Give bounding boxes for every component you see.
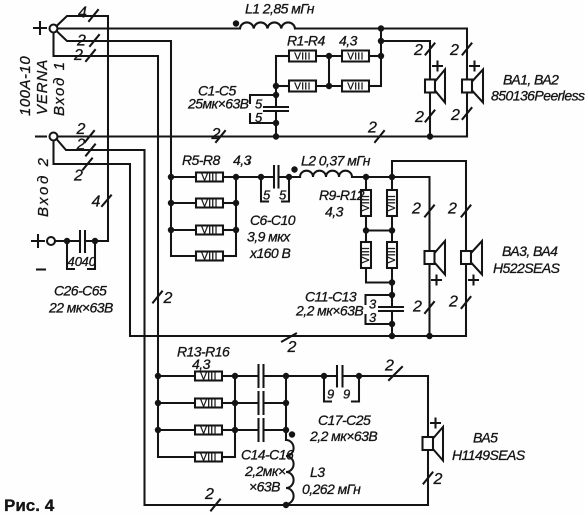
svg-text:100А-10: 100А-10 — [17, 56, 34, 116]
gauge 2 — [86, 145, 95, 156]
inductor L3 winding-start dot — [289, 431, 295, 437]
svg-text:×63В: ×63В — [249, 479, 280, 495]
resistor R1 — [276, 51, 316, 63]
svg-text:VIII: VIII — [200, 399, 217, 410]
svg-text:2,2 мк×63В: 2,2 мк×63В — [309, 428, 377, 444]
svg-text:2,2 мк×63В: 2,2 мк×63В — [295, 303, 363, 319]
gauge 2 mid return bus — [282, 334, 296, 342]
svg-text:4,3: 4,3 — [192, 356, 211, 372]
wire: input1+ branch to woofer R13-R16 left bus — [54, 33, 159, 458]
resistor R10 — [387, 177, 398, 216]
gauge 4 vertical — [102, 196, 111, 207]
svg-text:40: 40 — [68, 254, 83, 269]
svg-text:ВА5: ВА5 — [473, 430, 498, 446]
svg-text:2: 2 — [412, 299, 422, 316]
resistor R6 — [171, 199, 236, 210]
svg-text:2: 2 — [448, 294, 458, 311]
svg-text:VIII: VIII — [387, 247, 398, 264]
wire: input1+ main top feed to L1 — [58, 27, 241, 29]
inductor L2 winding-start dot — [291, 166, 297, 172]
svg-text:5: 5 — [263, 188, 271, 203]
capacitor C6-C10 — [236, 166, 300, 203]
wire: input1+ branch 4mm to bottom cap bank (vertical x=108) — [57, 16, 109, 241]
svg-text:VIII: VIII — [201, 173, 218, 184]
capacitor C11-C13 — [366, 292, 404, 336]
capacitor C17-C25 — [286, 366, 428, 402]
svg-text:4,3: 4,3 — [325, 204, 344, 220]
inductor L1 winding-start dot — [233, 20, 239, 26]
speaker BA5 — [423, 419, 444, 461]
wire: L1 to speakers feed — [295, 29, 467, 137]
resistor R5 — [171, 173, 236, 184]
svg-text:VIII: VIII — [387, 195, 398, 212]
svg-text:VIII: VIII — [201, 252, 218, 263]
input 2 plus terminal — [32, 235, 55, 247]
svg-text:VIII: VIII — [347, 82, 364, 93]
svg-text:С17-С25: С17-С25 — [318, 412, 371, 428]
svg-text:Н522SEAS: Н522SEAS — [493, 260, 561, 276]
svg-text:4,3: 4,3 — [339, 33, 358, 49]
svg-text:L2 0,37 мГн: L2 0,37 мГн — [301, 153, 371, 169]
inductor L3 — [286, 440, 294, 504]
svg-text:2: 2 — [367, 120, 377, 137]
svg-text:5: 5 — [255, 110, 263, 125]
svg-text:2: 2 — [449, 42, 459, 59]
svg-text:9: 9 — [327, 387, 334, 402]
gauge 2 BA1 feed — [426, 44, 435, 55]
node: R1-R4 right bus — [380, 29, 382, 87]
svg-text:Вход 1: Вход 1 — [51, 60, 68, 116]
svg-text:Вход 2: Вход 2 — [35, 155, 52, 217]
svg-text:2: 2 — [211, 126, 221, 143]
svg-text:2: 2 — [204, 486, 214, 503]
gauge 2 top bus mid — [216, 131, 225, 142]
node: R5-R8 buses — [235, 177, 237, 256]
svg-text:2: 2 — [411, 201, 421, 218]
wire gauge marks — [83, 10, 472, 511]
inductor L2 — [300, 171, 352, 177]
svg-text:С14-С16: С14-С16 — [241, 447, 294, 463]
svg-text:4: 4 — [78, 5, 87, 22]
svg-text:2: 2 — [413, 42, 423, 59]
resistor R11 — [361, 216, 372, 268]
wire: to speaker BA5 — [427, 376, 429, 505]
resistor R8 — [171, 252, 236, 263]
svg-text:5: 5 — [279, 188, 287, 203]
resistor R2 — [316, 51, 381, 63]
gauge 2 BA4 return — [462, 297, 471, 308]
node: R13-R16 buses — [234, 376, 236, 457]
svg-text:ВА1, ВА2: ВА1, ВА2 — [503, 72, 559, 88]
input 1 minus terminal — [36, 133, 58, 141]
speaker BA1 — [425, 62, 445, 103]
gauge 2 — [83, 159, 92, 170]
speaker BA4 — [461, 241, 482, 285]
svg-text:VIII: VIII — [201, 199, 218, 210]
gauge 2 BA2 return — [463, 108, 472, 119]
gauge 2 bottom bus — [211, 500, 220, 511]
svg-text:40: 40 — [82, 254, 97, 269]
svg-text:L1 2,85 мГн: L1 2,85 мГн — [245, 1, 315, 17]
svg-text:ВА3, ВА4: ВА3, ВА4 — [502, 243, 558, 259]
speaker BA3 — [425, 241, 446, 285]
capacitor C16 — [235, 419, 286, 441]
svg-text:3: 3 — [369, 310, 377, 325]
svg-text:2: 2 — [414, 109, 424, 126]
resistor R14 — [158, 399, 235, 410]
svg-text:2,2мк×: 2,2мк× — [244, 463, 286, 479]
svg-text:Н1149SEAS: Н1149SEAS — [452, 447, 526, 463]
wire: L2 to speaker BA3 — [352, 177, 430, 336]
svg-text:25мк×63В: 25мк×63В — [187, 96, 249, 112]
svg-text:L3: L3 — [310, 464, 325, 480]
svg-text:х160 В: х160 В — [249, 245, 290, 261]
capacitor C15 — [235, 392, 286, 414]
resistor R3 — [276, 81, 316, 93]
gauge 2 — [90, 35, 99, 46]
svg-text:VIII: VIII — [294, 82, 311, 93]
resistor R4 — [316, 81, 381, 93]
svg-text:С26-С65: С26-С65 — [54, 283, 107, 299]
input 1 plus terminal — [34, 22, 58, 34]
svg-text:R9-R12: R9-R12 — [319, 187, 365, 203]
gauge 4 top — [89, 10, 98, 21]
svg-text:2: 2 — [73, 47, 83, 64]
node: R9-R12 links — [366, 229, 392, 231]
svg-text:R5-R8: R5-R8 — [182, 152, 220, 168]
svg-text:VIII: VIII — [294, 52, 311, 63]
svg-text:2: 2 — [287, 339, 297, 356]
node: R1-R4 middle link — [328, 56, 330, 86]
speaker BA2 — [462, 62, 483, 103]
svg-text:VIII: VIII — [361, 247, 372, 264]
gauge 2 woofer feed — [153, 292, 162, 303]
node: R1-R4 left bus — [275, 56, 277, 137]
gauge 2 minus bus — [85, 131, 94, 142]
gauge 2 BA5 feed — [389, 367, 402, 380]
svg-text:0,262 мГн: 0,262 мГн — [302, 481, 361, 497]
gauge 2 BA5 return — [424, 473, 433, 484]
capacitor C26-C65 — [55, 231, 108, 269]
svg-text:Рис. 4: Рис. 4 — [4, 496, 55, 514]
svg-text:2: 2 — [76, 137, 86, 154]
resistor R15 — [158, 426, 235, 437]
svg-text:4: 4 — [92, 194, 101, 211]
gauge 2 BA3 return — [425, 302, 434, 313]
svg-text:VIII: VIII — [200, 453, 217, 464]
svg-text:2: 2 — [384, 358, 394, 375]
wire: mid return bus — [54, 141, 467, 337]
wire: input1+ branch to mid section R5-R8 left bus — [57, 31, 172, 256]
svg-text:2: 2 — [447, 201, 457, 218]
svg-text:С6-С10: С6-С10 — [250, 212, 296, 228]
capacitor C14 — [235, 365, 286, 387]
svg-text:22 мк×63В: 22 мк×63В — [48, 300, 113, 316]
resistor R9 — [361, 177, 372, 216]
resistor R16 — [158, 453, 235, 464]
svg-text:4,3: 4,3 — [233, 152, 252, 168]
wire: feed to speaker BA1 — [381, 41, 430, 137]
svg-text:VERNA: VERNA — [34, 59, 51, 115]
svg-text:2: 2 — [450, 107, 460, 124]
gauge 2 — [86, 50, 95, 61]
svg-text:9: 9 — [343, 387, 350, 402]
wire: woofer return (left, bottom bus) — [57, 139, 429, 505]
wire: top return bus — [58, 135, 468, 137]
svg-text:850136Peerless: 850136Peerless — [491, 88, 585, 104]
gauge numbers — [73, 5, 460, 504]
svg-text:3,9 мкх: 3,9 мкх — [247, 229, 291, 245]
resistor R13 — [158, 372, 235, 383]
node: C14-C16 right bus — [285, 376, 287, 440]
input 2 minus sign — [37, 268, 45, 270]
resistor R12 — [387, 216, 398, 268]
svg-text:VIII: VIII — [200, 426, 217, 437]
gauge 2 BA3 feed — [425, 206, 434, 217]
svg-text:R1-R4: R1-R4 — [287, 33, 325, 49]
inductor L1 — [240, 22, 295, 28]
svg-text:2: 2 — [433, 471, 443, 488]
gauge 2 BA1 return — [426, 111, 435, 122]
resistor R7 — [171, 226, 236, 237]
svg-text:VIII: VIII — [347, 52, 364, 63]
gauge 2 top bus right — [375, 131, 384, 142]
wire: branch to speaker BA4 — [392, 161, 466, 336]
gauge 2 BA4 feed — [462, 206, 471, 217]
gauge 2 BA2 feed — [463, 44, 472, 55]
svg-text:2: 2 — [73, 168, 83, 185]
svg-text:2: 2 — [76, 121, 86, 138]
capacitor C1-C5 — [250, 92, 288, 126]
svg-text:2: 2 — [163, 290, 173, 307]
svg-text:VIII: VIII — [200, 372, 217, 383]
svg-text:VIII: VIII — [201, 226, 218, 237]
